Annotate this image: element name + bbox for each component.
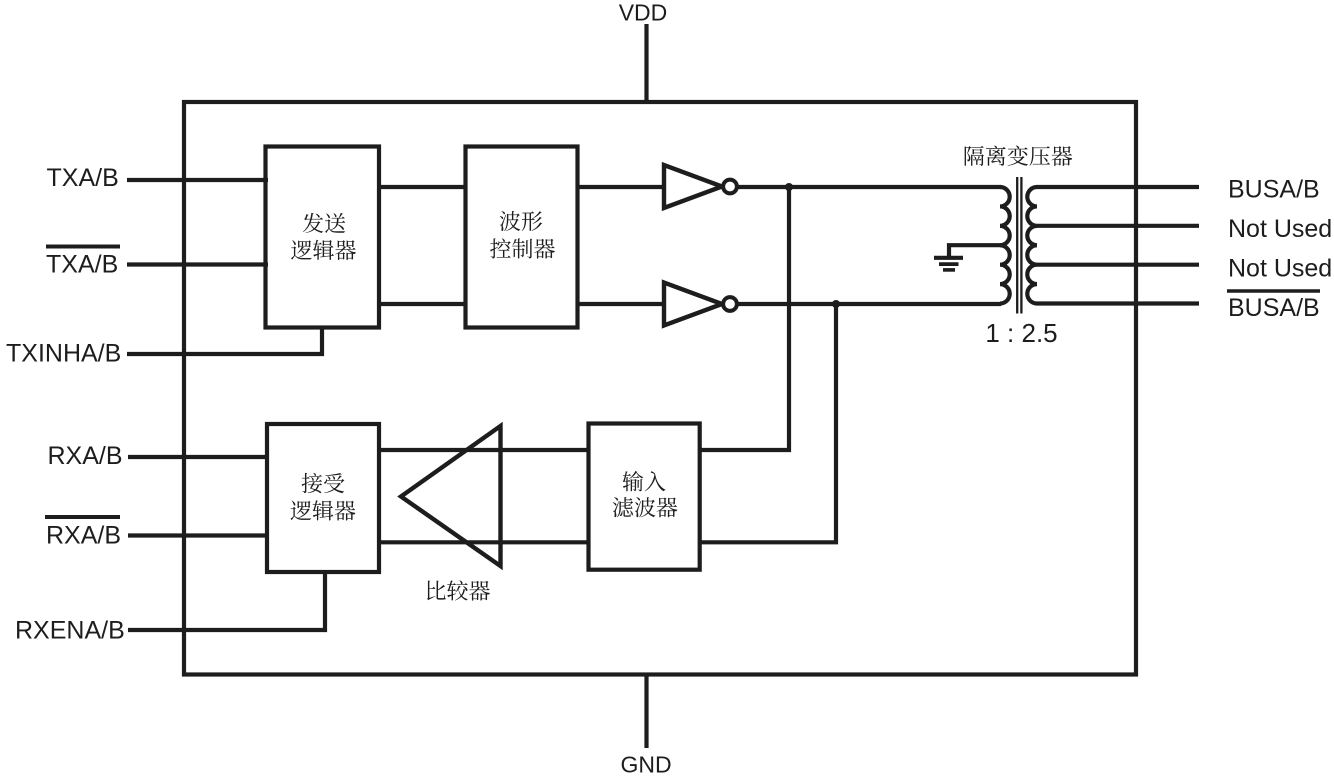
junction node B	[832, 300, 840, 308]
ground symbol at center tap	[934, 256, 963, 260]
wire transmit to waveform top	[379, 185, 465, 189]
overline for /TXA/B	[46, 245, 120, 249]
wire transformer center tap	[949, 245, 1001, 256]
wire node B down to input filter	[700, 304, 836, 542]
wire BUSA/B output	[1037, 185, 1200, 189]
svg-text:GND: GND	[620, 752, 671, 778]
wire input filter to receive logic top	[379, 448, 589, 452]
wire waveform to driver A	[578, 185, 666, 189]
wire TXINHA/B input	[127, 328, 322, 355]
chip outline box U1	[184, 102, 1136, 675]
wire waveform to driver B	[578, 302, 666, 306]
svg-text:RXA/B: RXA/B	[46, 522, 121, 550]
power VDD pin wire	[644, 24, 648, 104]
transformer T1 core	[1016, 177, 1018, 314]
inverter driver B	[664, 283, 722, 326]
wire /RXA/B input	[128, 533, 269, 537]
junction node A	[785, 183, 793, 191]
wire Not-Used tap 1	[1037, 224, 1200, 228]
wire /TXA/B input	[127, 262, 268, 266]
svg-text:BUSA/B: BUSA/B	[1228, 176, 1320, 204]
wire Not-Used tap 2	[1037, 263, 1200, 267]
block U5 input filter (shu-ru lv-bo-qi)	[589, 424, 700, 570]
block U2 transmit logic (fa-song luo-ji-qi)	[266, 147, 380, 328]
wire /BUSA/B output	[1037, 301, 1200, 305]
wire transmit to waveform bottom	[379, 302, 465, 306]
svg-text:VDD: VDD	[619, 0, 668, 26]
svg-text:Not Used: Not Used	[1228, 254, 1332, 282]
overline for /RXA/B	[45, 515, 120, 519]
label transformer (ge-li bian-ya-qi)	[965, 145, 1073, 166]
label comparator (bi-jiao-qi)	[427, 580, 490, 600]
transformer T1 primary winding	[1000, 187, 1010, 304]
comparator U6 (bi-jiao-qi)	[401, 426, 501, 566]
wire node A down to input filter	[700, 187, 789, 450]
wire RXENA/B input	[128, 572, 325, 630]
svg-text:BUSA/B: BUSA/B	[1228, 294, 1320, 322]
block U4 receive logic (jie-shou luo-ji-qi)	[267, 424, 379, 572]
svg-text:RXA/B: RXA/B	[48, 442, 123, 470]
transformer T1 secondary winding	[1027, 187, 1037, 304]
wire driver B to transformer	[739, 302, 1002, 306]
wire input filter to receive logic bottom	[379, 540, 589, 544]
wire TXA/B input	[127, 178, 268, 182]
wire RXA/B input	[128, 455, 269, 459]
overline for /BUSA/B	[1227, 289, 1320, 293]
svg-text:TXA/B: TXA/B	[46, 251, 118, 279]
wire driver A to transformer	[739, 185, 1002, 189]
block U3 waveform controller (bo-xing kong-zhi-qi)	[466, 147, 578, 328]
inverter driver A	[664, 165, 722, 208]
svg-text:TXA/B: TXA/B	[47, 164, 119, 192]
svg-text:RXENA/B: RXENA/B	[15, 617, 125, 645]
svg-text:TXINHA/B: TXINHA/B	[6, 340, 121, 368]
ground GND pin wire	[644, 673, 648, 749]
svg-text:1 : 2.5: 1 : 2.5	[985, 318, 1057, 348]
svg-text:Not Used: Not Used	[1228, 215, 1332, 243]
